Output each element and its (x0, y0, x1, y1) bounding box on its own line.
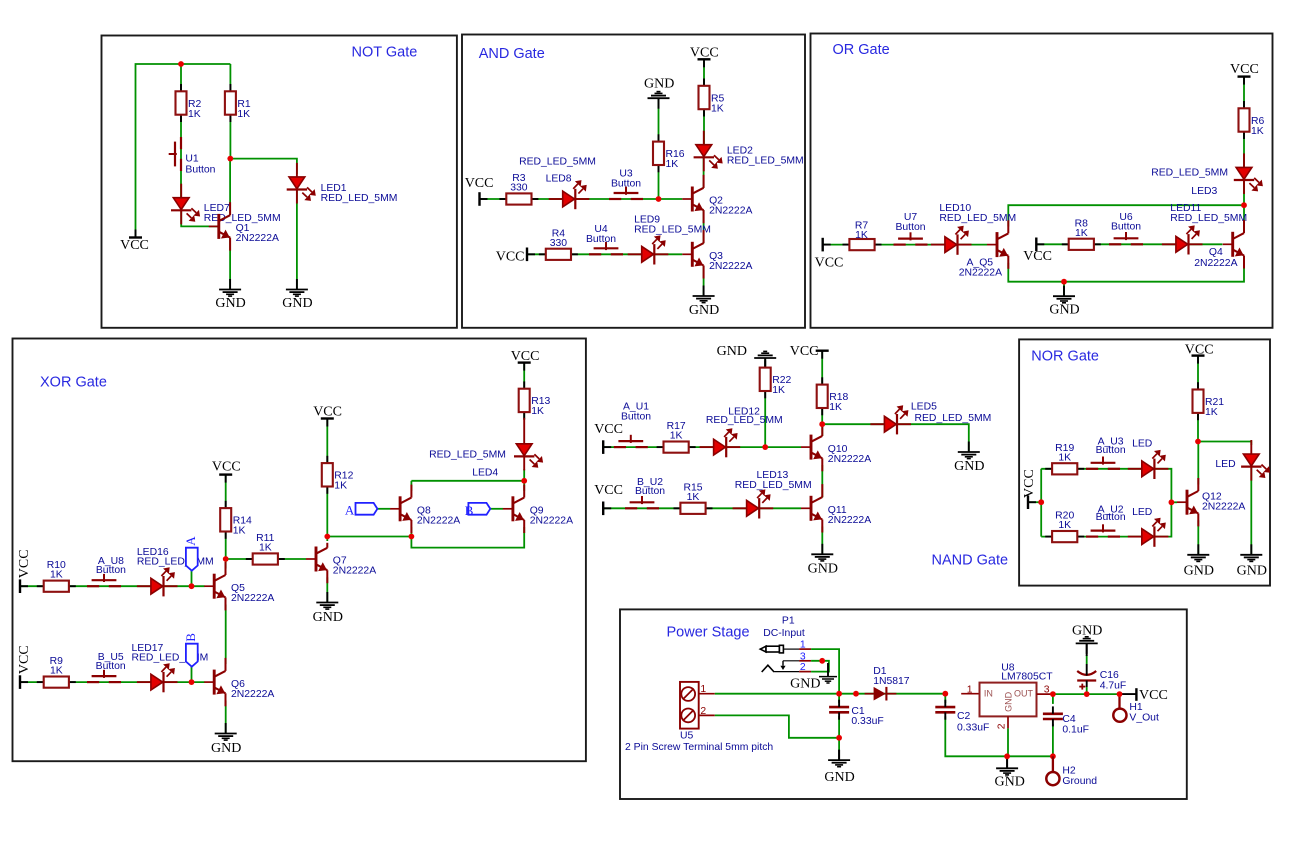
svg-text:1K: 1K (237, 109, 250, 120)
svg-text:VCC: VCC (790, 344, 819, 359)
svg-text:1K: 1K (50, 666, 63, 677)
svg-text:VCC: VCC (594, 483, 623, 498)
svg-text:2N2222A: 2N2222A (828, 515, 871, 526)
svg-text:NOR Gate: NOR Gate (1031, 349, 1099, 365)
svg-text:1K: 1K (772, 385, 785, 396)
svg-text:VCC: VCC (1230, 62, 1259, 77)
svg-text:3: 3 (1044, 684, 1050, 695)
svg-text:GND: GND (790, 677, 820, 692)
svg-text:GND: GND (995, 774, 1025, 789)
svg-text:VCC: VCC (212, 459, 241, 474)
svg-text:RED_LED_5MM: RED_LED_5MM (727, 155, 804, 166)
svg-text:VCC: VCC (511, 349, 540, 364)
svg-text:DC-Input: DC-Input (763, 628, 805, 639)
svg-text:330: 330 (510, 183, 528, 194)
svg-text:GND: GND (282, 296, 312, 311)
svg-text:Button: Button (621, 412, 651, 423)
svg-text:C1: C1 (851, 706, 865, 717)
svg-text:GND: GND (689, 303, 719, 318)
svg-text:GND: GND (313, 610, 343, 625)
svg-text:H2: H2 (1062, 765, 1076, 776)
svg-text:LED: LED (1215, 459, 1235, 470)
svg-text:GND: GND (954, 459, 984, 474)
svg-text:Button: Button (586, 234, 616, 245)
svg-text:1K: 1K (1251, 126, 1264, 137)
svg-text:VCC: VCC (120, 238, 149, 253)
svg-text:RED_LED_5MM: RED_LED_5MM (1151, 168, 1228, 179)
svg-text:2N2222A: 2N2222A (959, 267, 1002, 278)
svg-text:GND: GND (1072, 624, 1102, 639)
svg-text:3: 3 (800, 651, 806, 662)
svg-text:GND: GND (215, 296, 245, 311)
svg-text:2N2222A: 2N2222A (1194, 258, 1237, 269)
svg-text:C2: C2 (957, 711, 971, 722)
svg-text:VCC: VCC (17, 645, 32, 674)
svg-text:1K: 1K (188, 109, 201, 120)
svg-text:1K: 1K (855, 230, 868, 241)
svg-text:Button: Button (1111, 222, 1141, 233)
svg-text:2 Pin Screw Terminal 5mm pitch: 2 Pin Screw Terminal 5mm pitch (625, 742, 773, 753)
svg-text:RED_LED_5MM: RED_LED_5MM (321, 193, 398, 204)
svg-text:NAND Gate: NAND Gate (932, 552, 1009, 568)
svg-text:Button: Button (635, 486, 665, 497)
svg-text:Button: Button (96, 661, 126, 672)
svg-text:2N2222A: 2N2222A (333, 566, 376, 577)
svg-text:1: 1 (800, 640, 806, 651)
svg-text:LED: LED (1132, 507, 1152, 518)
svg-text:VCC: VCC (1139, 688, 1168, 703)
svg-text:RED_LED_5MM: RED_LED_5MM (429, 449, 506, 460)
svg-text:2N2222A: 2N2222A (1202, 501, 1245, 512)
svg-text:330: 330 (550, 238, 568, 249)
svg-text:RED_LED_5MM: RED_LED_5MM (735, 480, 812, 491)
svg-text:LED8: LED8 (546, 174, 572, 185)
svg-text:C4: C4 (1062, 714, 1076, 725)
svg-text:4.7uF: 4.7uF (1100, 680, 1127, 691)
svg-text:2: 2 (997, 723, 1008, 729)
svg-text:2N2222A: 2N2222A (530, 516, 573, 527)
svg-text:XOR Gate: XOR Gate (40, 375, 107, 391)
svg-text:VCC: VCC (313, 405, 342, 420)
svg-text:1: 1 (700, 684, 706, 695)
svg-text:P1: P1 (782, 615, 795, 626)
svg-text:AND Gate: AND Gate (479, 46, 545, 62)
svg-text:1K: 1K (1075, 228, 1088, 239)
svg-text:LED: LED (1132, 438, 1152, 449)
svg-text:RED_LED_5MM: RED_LED_5MM (915, 413, 992, 424)
svg-text:B: B (465, 503, 474, 518)
svg-text:B: B (183, 633, 198, 642)
svg-text:VCC: VCC (465, 176, 494, 191)
svg-text:RED_LED_5MM: RED_LED_5MM (519, 156, 596, 167)
svg-text:Button: Button (895, 222, 925, 233)
svg-text:A: A (345, 502, 355, 517)
svg-text:Power Stage: Power Stage (667, 625, 750, 641)
svg-text:Button: Button (1096, 445, 1126, 456)
svg-text:Button: Button (1096, 512, 1126, 523)
svg-text:GND: GND (824, 770, 854, 785)
svg-text:1K: 1K (687, 492, 700, 503)
svg-text:1K: 1K (829, 402, 842, 413)
svg-text:1K: 1K (259, 543, 272, 554)
svg-text:Button: Button (611, 179, 641, 190)
svg-text:OR Gate: OR Gate (833, 42, 890, 58)
svg-text:GND: GND (1004, 691, 1014, 712)
svg-text:VCC: VCC (690, 45, 719, 60)
svg-text:2N2222A: 2N2222A (231, 689, 274, 700)
svg-text:GND: GND (1049, 303, 1079, 318)
svg-text:OUT: OUT (1014, 689, 1034, 699)
svg-text:0.33uF: 0.33uF (851, 716, 883, 727)
svg-text:1K: 1K (531, 406, 544, 417)
svg-text:GND: GND (808, 561, 838, 576)
svg-text:C16: C16 (1100, 670, 1119, 681)
svg-text:VCC: VCC (815, 255, 844, 270)
svg-text:LED5: LED5 (911, 401, 937, 412)
svg-text:1K: 1K (334, 481, 347, 492)
svg-text:Button: Button (96, 565, 126, 576)
svg-text:2N2222A: 2N2222A (417, 516, 460, 527)
svg-text:1K: 1K (1205, 407, 1218, 418)
svg-text:2N2222A: 2N2222A (828, 454, 871, 465)
svg-text:2N2222A: 2N2222A (709, 261, 752, 272)
svg-text:1: 1 (967, 685, 973, 696)
svg-text:1K: 1K (233, 526, 246, 537)
svg-text:U5: U5 (680, 730, 694, 741)
svg-text:VCC: VCC (17, 549, 32, 578)
svg-text:2N2222A: 2N2222A (709, 206, 752, 217)
svg-text:VCC: VCC (1185, 343, 1214, 358)
svg-text:RED_LED_5MM: RED_LED_5MM (1170, 213, 1247, 224)
svg-text:2N2222A: 2N2222A (231, 593, 274, 604)
svg-text:GND: GND (211, 741, 241, 756)
svg-text:LM7805CT: LM7805CT (1001, 671, 1053, 682)
svg-text:V_Out: V_Out (1129, 712, 1159, 723)
svg-text:GND: GND (717, 344, 747, 359)
svg-text:0.1uF: 0.1uF (1062, 725, 1089, 736)
svg-text:VCC: VCC (594, 422, 623, 437)
svg-text:1N5817: 1N5817 (873, 676, 910, 687)
svg-text:IN: IN (984, 689, 993, 699)
svg-text:RED_LED_5MM: RED_LED_5MM (939, 213, 1016, 224)
svg-text:RED_LED_5MM: RED_LED_5MM (706, 415, 783, 426)
svg-text:LED4: LED4 (472, 468, 498, 479)
svg-text:NOT Gate: NOT Gate (352, 44, 418, 60)
svg-text:0.33uF: 0.33uF (957, 722, 989, 733)
svg-text:2N2222A: 2N2222A (236, 233, 279, 244)
svg-text:GND: GND (1237, 564, 1267, 579)
svg-text:VCC: VCC (1022, 469, 1037, 498)
svg-text:VCC: VCC (496, 250, 525, 265)
svg-text:Q4: Q4 (1209, 247, 1223, 258)
svg-text:GND: GND (644, 77, 674, 92)
svg-text:1K: 1K (666, 159, 679, 170)
svg-text:GND: GND (1184, 564, 1214, 579)
svg-text:LED3: LED3 (1191, 186, 1217, 197)
svg-text:2: 2 (700, 706, 706, 717)
svg-text:1K: 1K (711, 103, 724, 114)
svg-text:Ground: Ground (1062, 776, 1097, 787)
svg-text:RED_LED_5MM: RED_LED_5MM (634, 225, 711, 236)
svg-text:Button: Button (185, 164, 215, 175)
svg-text:1K: 1K (1058, 452, 1071, 463)
svg-text:RED_LED_5MM: RED_LED_5MM (137, 557, 214, 568)
svg-text:A: A (183, 536, 198, 546)
svg-text:U1: U1 (185, 154, 199, 165)
svg-text:1K: 1K (50, 570, 63, 581)
svg-text:1K: 1K (1058, 520, 1071, 531)
svg-text:1K: 1K (670, 431, 683, 442)
svg-text:VCC: VCC (1023, 249, 1052, 264)
svg-text:2: 2 (800, 662, 806, 673)
